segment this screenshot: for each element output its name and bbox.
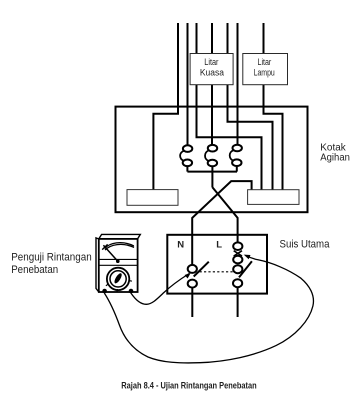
switch N pole bottom contact: [188, 280, 197, 288]
switch L incoming terminal: [233, 242, 242, 250]
svg-text:Suis Utama: Suis Utama: [280, 238, 330, 250]
arrowhead at N pole: [185, 273, 191, 279]
svg-text:Rajah 8.4 - Ujian Rintangan Pe: Rajah 8.4 - Ujian Rintangan Penebatan: [121, 380, 257, 391]
wire 2: live feed to fuse F1: [187, 23, 189, 146]
switch L pole bottom contact: [233, 279, 242, 287]
insulation tester meter U1: side face: [96, 238, 99, 292]
label: Penguji Rintangan Penebatan: [11, 251, 92, 276]
svg-text:L: L: [216, 239, 222, 250]
wire 1: neutral feed to left terminal bar: [153, 23, 178, 190]
meter needle: [103, 245, 117, 261]
meter selector knob outer ring: [107, 268, 129, 290]
svg-text:N: N: [177, 239, 184, 250]
svg-text:Litar: Litar: [204, 57, 218, 67]
meter scale arc: [105, 243, 134, 249]
switch N blade: [194, 262, 209, 277]
test clip X on L terminal: [234, 251, 242, 256]
knob tick marks: [106, 280, 132, 291]
wire: L pole outgoing stub: [237, 287, 239, 317]
fuse F1: [180, 145, 192, 171]
wire 7: lamp circuit return to neutral link: [264, 23, 283, 190]
svg-text:Litar: Litar: [258, 57, 272, 67]
meter top face: [99, 234, 141, 239]
switch L clip contact: [233, 256, 242, 264]
wire: N pole outgoing stub: [191, 288, 193, 318]
svg-text:Lampu: Lampu: [254, 68, 275, 78]
needle tip crossbar: [102, 244, 107, 249]
switch L pole top contact: [233, 265, 242, 273]
wire 5: return wire to neutral link (right bar): [228, 23, 273, 190]
fuse F2: [205, 145, 217, 172]
switch N pole top contact: [188, 265, 197, 273]
meter knob pointer: [113, 272, 123, 284]
wire 6: live feed to fuse F3: [237, 23, 239, 145]
distribution box enclosure (Kotak Agihan): [116, 107, 308, 213]
meter selector knob inner ring: [110, 271, 126, 287]
wire 4: live feed to fuse F2: [211, 23, 213, 146]
left terminal bar: [127, 190, 178, 206]
meter front face: [99, 239, 138, 292]
fuse output bus: [187, 171, 237, 173]
svg-text:Penguji Rintangan: Penguji Rintangan: [11, 251, 92, 263]
dashed mechanical link between poles: [200, 271, 234, 273]
meter divider band: [99, 259, 137, 265]
test lead loop from left terminal to L terminal: [104, 255, 313, 363]
meter terminal (right): [129, 289, 134, 294]
arrowhead at L terminal: [244, 255, 251, 260]
fuse F3: [230, 145, 242, 172]
right terminal bar (neutral link): [248, 190, 299, 205]
meter needle pivot: [116, 259, 120, 263]
wire: neutral diagonal from right bar to switch N terminal: [192, 181, 251, 265]
label box: Litar Kuasa: [190, 54, 233, 85]
meter terminal (left): [102, 289, 107, 294]
svg-text:Agihan: Agihan: [320, 153, 350, 164]
switch L blade: [239, 261, 252, 277]
wire 3: return wire to neutral link (right bar): [197, 23, 262, 190]
label box: Litar Lampu: [243, 54, 288, 85]
label: Kotak Agihan: [320, 142, 350, 163]
wire: live diagonal to switch L terminal: [212, 187, 237, 242]
test lead from right terminal to N pole: [131, 274, 190, 305]
wire: bus drop to live diagonal: [211, 172, 213, 188]
svg-text:Kuasa: Kuasa: [200, 68, 224, 78]
main switch box (Suis Utama): [167, 235, 267, 294]
svg-text:Penebatan: Penebatan: [11, 264, 58, 276]
